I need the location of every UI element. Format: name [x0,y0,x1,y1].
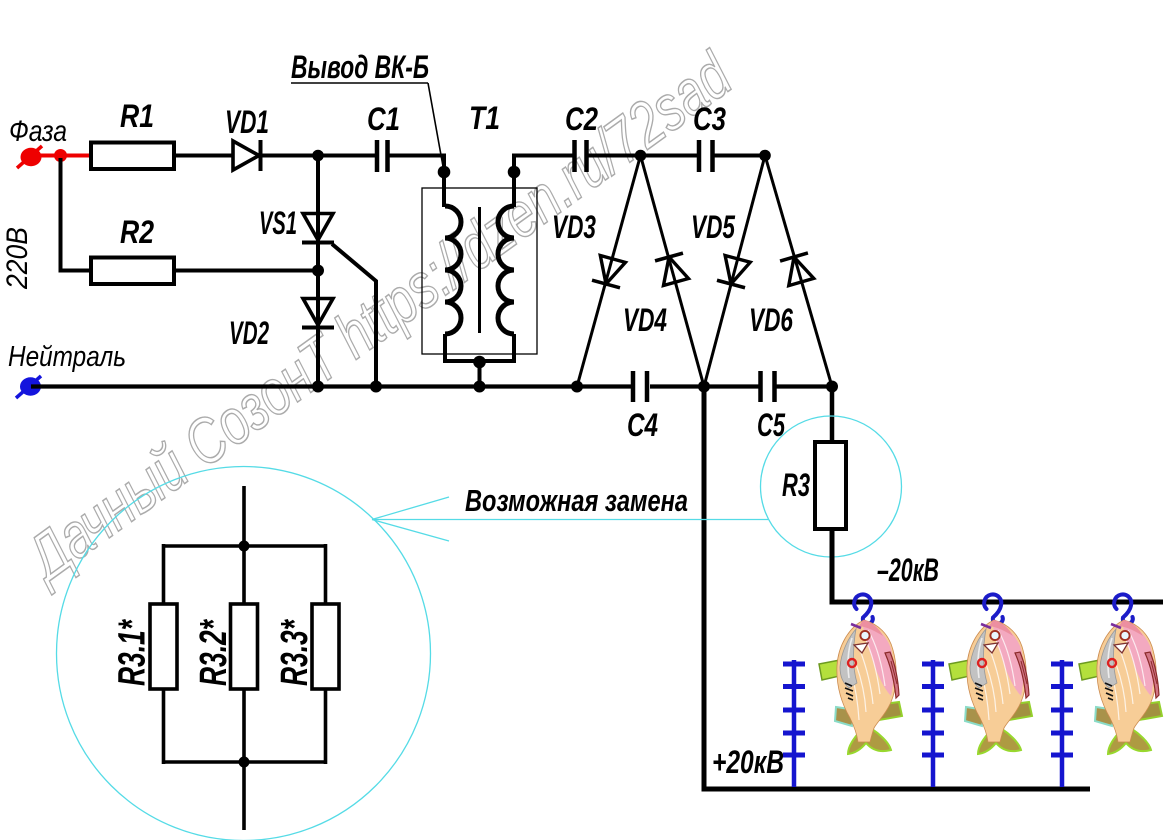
svg-text:+20кВ: +20кВ [712,744,784,780]
svg-text:Вывод ВК-Б: Вывод ВК-Б [291,49,429,85]
wire bottom bus [164,760,326,764]
wire VD1 to C1 [260,154,376,158]
label Вывод ВК-Б callout [291,49,444,169]
wire diagonal B to D2 [641,156,705,387]
node top junction A [312,150,324,162]
wire diagonal C to D3 [765,156,832,387]
node rail D1 [571,381,583,393]
wire junction to VS1 [316,156,320,389]
wire C1 to T1 [389,156,444,208]
wire red phase [31,154,90,158]
wire neutral rail [31,384,633,388]
node top bus [239,541,250,552]
svg-text:C4: C4 [627,407,658,443]
svg-text:C5: C5 [757,407,786,443]
capacitor C3 [699,140,713,172]
wire VS1 to node [316,240,320,299]
svg-text:R1: R1 [120,98,154,134]
wire T1 to C2 [514,156,573,208]
fish 1 [819,620,902,754]
electrode 1 [783,660,805,787]
node Нейтраль terminal [16,376,41,398]
svg-text:C1: C1 [367,101,400,137]
node R2 junction [312,265,324,277]
resistor R1 [91,143,174,170]
node D2 [698,381,710,393]
label Возможная замена callout [372,483,768,541]
resistor R3.2 [231,604,258,689]
wire T1 bottom to rail [478,362,482,388]
node phase junction [54,149,67,162]
wire diagonal C to D2 [704,156,765,387]
wire R2 to VS1 node [174,269,318,273]
wire branch 2 top [242,546,246,604]
node T1 primary top [438,166,451,179]
svg-text:T1: T1 [469,100,500,136]
capacitor C1 [377,140,388,172]
capacitor C5 [761,371,775,402]
wire C4 to node D2 [650,384,705,388]
hook 3 [1114,594,1133,623]
wire diagonal B to D1 [577,156,641,387]
thyristor VS1 [302,214,376,388]
transformer T1 [422,188,537,361]
wire branch 3 top [324,544,328,604]
svg-text:Нейтраль: Нейтраль [8,341,126,373]
svg-text:VD6: VD6 [749,302,793,338]
wire branch 1 [162,544,166,604]
node rail T1 [474,381,486,393]
hook 1 [854,594,873,623]
fish 3 [1079,620,1162,754]
svg-text:C2: C2 [565,101,598,137]
wire VD2 to rail [316,325,320,388]
wire stem top [242,486,246,546]
svg-text:R3.3*: R3.3* [274,618,316,686]
wire branch 1 bottom [162,689,166,764]
diode VD3 [592,255,627,288]
node D3 [826,381,838,393]
resistor R3 [815,442,846,529]
svg-text:R2: R2 [120,214,154,250]
resistor R3.3 [312,604,339,689]
wire D2 down to +20kV rail [704,387,1090,790]
diode VD5 [717,255,752,288]
node T1 secondary top [508,166,521,179]
wire R3 to -20kV rail [832,529,1163,602]
diode VD1 [233,140,261,171]
diode VD2 [302,299,334,328]
svg-text:VD1: VD1 [225,104,269,140]
wire top bus [164,544,326,548]
node rail gate [370,381,382,393]
svg-text:VD3: VD3 [552,209,596,245]
svg-text:VD5: VD5 [691,209,736,245]
wire stem bottom [242,762,246,830]
circle around R3 [761,416,902,557]
wire C5 to node D3 [776,384,833,388]
fish 2 [949,620,1032,754]
electrode 2 [922,660,944,787]
node Фаза terminal [17,146,42,168]
svg-text:C3: C3 [693,101,726,137]
diode VD4 [655,253,690,286]
svg-text:Фаза: Фаза [9,115,67,148]
svg-text:VD4: VD4 [623,302,667,338]
wire node D2 to C5 [704,384,759,388]
svg-text:Возможная замена: Возможная замена [465,483,688,518]
wire D3 to R3 [830,387,835,443]
svg-text:R3: R3 [782,467,810,503]
node B [635,150,647,162]
wire branch 3 bottom [324,689,328,764]
node C [759,150,771,162]
wire R1 to VD1 [174,154,233,158]
electrode 3 [1051,660,1073,787]
svg-text:R3.1*: R3.1* [112,618,154,686]
wire C3 to node C [712,154,765,158]
diode VD6 [780,253,815,286]
wire to R2 [61,158,90,271]
wire C2 to node B [588,154,641,158]
node T1 bottom [473,356,486,369]
circle replacement network [57,467,431,840]
capacitor C2 [575,140,587,172]
node rail VD2 [312,381,324,393]
resistor R3.1 [150,604,177,689]
capacitor C4 [633,371,647,402]
svg-text:R3.2*: R3.2* [193,618,235,686]
node bottom bus [239,757,250,768]
svg-text:VS1: VS1 [259,205,297,241]
svg-text:220В: 220В [1,227,34,290]
svg-text:–20кВ: –20кВ [877,552,939,588]
resistor R2 [91,258,174,285]
wire branch 2 bottom [242,689,246,762]
hook 2 [984,594,1003,623]
wire node B to C3 [640,154,697,158]
svg-text:VD2: VD2 [229,315,269,351]
